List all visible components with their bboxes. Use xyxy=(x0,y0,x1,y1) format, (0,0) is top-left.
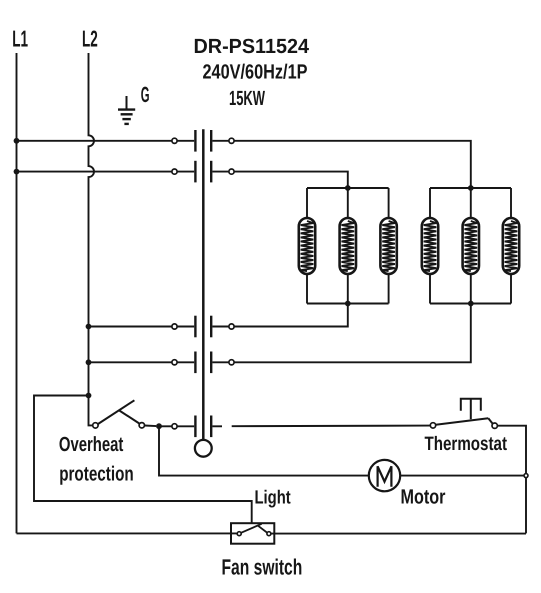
svg-text:Motor: Motor xyxy=(401,486,446,509)
wire wire W1 right (pole1 to right heater bank) xyxy=(234,141,471,188)
svg-text:L2: L2 xyxy=(82,26,98,52)
wire wire junction to pole5 xyxy=(159,425,172,427)
svg-text:Light: Light xyxy=(255,487,292,508)
junction right bank top xyxy=(468,185,474,191)
wire left bank top bus xyxy=(307,187,389,189)
wire heater drop x=430 xyxy=(429,188,431,218)
wire heater drop x=470.8 xyxy=(470,188,472,218)
wire heater drop x=388.6 xyxy=(388,188,390,218)
wire right bank top bus xyxy=(430,187,511,189)
heater element R5 xyxy=(463,218,479,274)
contactor K1 pole 4 xyxy=(172,352,234,374)
wire wire W4 left (L2 to pole4) xyxy=(89,361,172,363)
heater element R1 xyxy=(299,218,315,274)
wire L1 feeder xyxy=(16,53,18,533)
junction motor-right (terminal) xyxy=(524,474,528,478)
thermostat actuator xyxy=(461,399,481,420)
svg-text:Thermostat: Thermostat xyxy=(425,433,508,455)
wire wire thermostat to right bus xyxy=(497,426,526,534)
svg-text:15KW: 15KW xyxy=(229,87,265,110)
wire L2 feeder xyxy=(89,53,95,396)
junction L1-W1 xyxy=(14,138,20,144)
wire heater drop x=347.8 xyxy=(347,188,349,218)
contactor K1 pole 2 xyxy=(172,161,234,183)
wire heater riser x=511 xyxy=(510,274,512,304)
contactor K1 pole 1 xyxy=(172,130,234,152)
junction left bank top xyxy=(345,185,351,191)
contactor K1 pole 5 (coil circuit) xyxy=(172,416,222,438)
junction L2-W3 xyxy=(86,324,92,330)
wire heater drop x=511 xyxy=(510,188,512,218)
wire wire bottom right (fan switch to right bus) xyxy=(271,533,526,535)
heater element R3 xyxy=(380,218,396,274)
svg-text:Fan switch: Fan switch xyxy=(222,555,303,580)
junction right bank bottom xyxy=(468,301,474,307)
thermostat S2 xyxy=(430,418,497,428)
wire wire W2 right (pole2 to left heater bank) xyxy=(234,172,348,188)
junction left bank bottom xyxy=(345,301,351,307)
wire heater riser x=347.8 xyxy=(347,274,349,304)
contactor K1 linkage xyxy=(202,129,205,440)
ground G xyxy=(118,96,135,124)
svg-text:240V/60Hz/1P: 240V/60Hz/1P xyxy=(203,60,308,83)
wire wire W3 left (L2 to pole3) xyxy=(89,326,172,328)
heater element R4 xyxy=(422,218,438,274)
junction L1-W2 xyxy=(14,169,20,175)
wire wire W3 right (pole3 to left bank bottom) xyxy=(234,304,348,327)
wire heater riser x=470.8 xyxy=(470,274,472,304)
wire wire pole5 to thermostat xyxy=(232,425,431,428)
wire left bank bottom bus xyxy=(307,303,389,305)
wire heater riser x=388.6 xyxy=(388,274,390,304)
contactor K1 coil xyxy=(195,440,212,457)
wire wire W4 right (pole4 to right bank bottom) xyxy=(234,304,471,363)
svg-text:G: G xyxy=(141,82,150,107)
heater element R2 xyxy=(340,218,356,274)
junction motor tap J5 xyxy=(156,423,162,429)
fan switch S3 xyxy=(231,523,274,544)
wire heater drop x=307 xyxy=(306,188,308,218)
wire wire W1 left (L1 to pole1) xyxy=(17,140,172,142)
svg-text:protection: protection xyxy=(59,463,134,486)
svg-text:Overheat: Overheat xyxy=(59,433,124,456)
wire right bank bottom bus xyxy=(430,303,511,305)
junction L2-W4 xyxy=(86,359,92,365)
svg-text:DR-PS11524: DR-PS11524 xyxy=(194,35,310,58)
junction L2/overheat/light junction xyxy=(86,393,92,399)
wire heater riser x=307 xyxy=(306,274,308,304)
wire wire light feed xyxy=(34,396,252,523)
overheat protection switch S1 xyxy=(89,396,157,429)
svg-text:L1: L1 xyxy=(12,26,28,52)
wire wire motor to right bus xyxy=(400,475,524,477)
wire wire motor branch xyxy=(159,426,369,475)
motor M1 xyxy=(369,460,400,491)
contactor K1 pole 3 xyxy=(172,316,234,338)
wire wire bottom left (L1 to fan switch) xyxy=(17,532,238,534)
wire wire W2 left (L1 to pole2) xyxy=(17,171,172,173)
wire heater riser x=430 xyxy=(429,274,431,304)
heater element R6 xyxy=(503,218,519,274)
